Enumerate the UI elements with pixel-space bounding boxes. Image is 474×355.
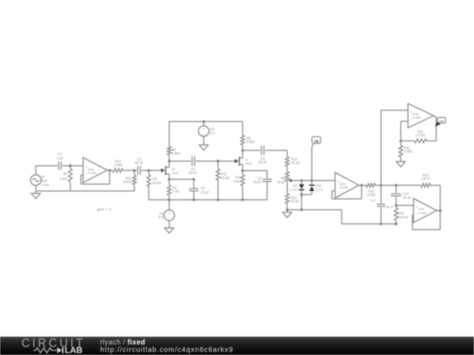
svg-text:out: out: [439, 119, 443, 123]
svg-text:91 kΩ: 91 kΩ: [291, 161, 300, 165]
svg-text:3.9kΩ: 3.9kΩ: [404, 150, 413, 154]
svg-text:3.9kΩ: 3.9kΩ: [246, 140, 255, 144]
svg-text:50 nF: 50 nF: [386, 205, 394, 209]
svg-text:1 µF: 1 µF: [57, 156, 63, 160]
svg-text:50 nF: 50 nF: [135, 161, 143, 165]
svg-text:1 kΩ: 1 kΩ: [173, 190, 180, 194]
svg-text:C17: C17: [370, 198, 376, 202]
svg-text:J310: J310: [245, 162, 252, 166]
svg-text:rlyach / fixed: rlyach / fixed: [100, 339, 145, 346]
svg-text:http://circuitlab.com/c4qxn6c6: http://circuitlab.com/c4qxn6c6arkx9: [100, 347, 233, 354]
svg-text:82 kΩ: 82 kΩ: [221, 176, 230, 180]
svg-text:50 nF: 50 nF: [189, 171, 197, 175]
svg-text:2.4kΩ: 2.4kΩ: [172, 152, 181, 156]
svg-text:1 kΩ: 1 kΩ: [233, 179, 240, 183]
svg-text:−: −: [203, 132, 205, 136]
svg-text:1.2 V: 1.2 V: [315, 188, 323, 192]
svg-text:TL081: TL081: [418, 211, 427, 215]
svg-text:TL081: TL081: [412, 116, 421, 120]
svg-text:10 µF: 10 µF: [253, 180, 261, 184]
svg-text:82 kΩ: 82 kΩ: [153, 181, 162, 185]
svg-text:R6: R6: [63, 172, 67, 176]
svg-text:3.9kΩ: 3.9kΩ: [123, 180, 132, 184]
svg-text:3.9kΩ: 3.9kΩ: [114, 163, 123, 167]
svg-text:J310: J310: [172, 171, 179, 175]
svg-text:10 kΩ: 10 kΩ: [367, 193, 376, 197]
svg-text:3.9 kΩ: 3.9 kΩ: [416, 134, 426, 138]
svg-text:50 nF: 50 nF: [403, 196, 411, 200]
svg-text:+: +: [168, 211, 170, 215]
svg-text:+: +: [203, 127, 205, 131]
svg-text:50 nF: 50 nF: [259, 161, 267, 165]
svg-text:−: −: [168, 217, 170, 221]
svg-text:LAB: LAB: [65, 345, 83, 355]
svg-text:TL081: TL081: [339, 186, 348, 190]
svg-text:gain = 3: gain = 3: [97, 206, 112, 211]
svg-text:VB: VB: [314, 139, 319, 143]
svg-text:91 kΩ: 91 kΩ: [291, 200, 300, 204]
svg-text:100 Ω: 100 Ω: [421, 177, 430, 181]
svg-text:25 kΩ: 25 kΩ: [277, 180, 286, 184]
svg-text:100 kΩ: 100 kΩ: [398, 215, 409, 219]
svg-text:1 kHz: 1 kHz: [41, 183, 50, 187]
svg-text:10 µF: 10 µF: [201, 190, 209, 194]
svg-text:TL081: TL081: [88, 171, 97, 175]
svg-text:1 MΩ: 1 MΩ: [60, 177, 68, 181]
svg-text:1.2 V: 1.2 V: [290, 188, 298, 192]
